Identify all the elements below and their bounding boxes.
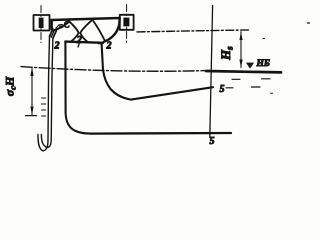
draft tube bottom wall	[90, 132, 231, 135]
svg-text:Нs: Нs	[218, 46, 235, 61]
svg-text:σсН: σсН	[2, 76, 17, 96]
point C marker circle	[60, 24, 63, 27]
pump casing inlet contour	[53, 22, 70, 31]
vacuum gauge tube bend from casing	[50, 29, 53, 37]
sigma-c H dimension line	[31, 67, 33, 115]
suction pipe right wall / draft tube top	[102, 43, 213, 99]
runner passage hourglass right	[80, 20, 92, 42]
casing bottom edge	[65, 42, 103, 43]
svg-text:2: 2	[106, 41, 112, 52]
pump casing left edge	[51, 20, 53, 29]
pump casing top edge	[52, 18, 120, 20]
gauge graduation ticks	[42, 97, 46, 99]
casing hatch marks near C	[56, 25, 62, 30]
casing inner right curve	[93, 21, 104, 40]
svg-text:5: 5	[220, 84, 225, 95]
Hs dimension line	[240, 32, 242, 68]
axis dash-dot line at runner level	[137, 30, 249, 32]
vacuum gauge tube down leg	[48, 37, 50, 141]
label Hs	[218, 46, 235, 61]
svg-text:C: C	[64, 20, 71, 30]
left bearing box	[34, 15, 50, 31]
sigma-c H bottom tick	[26, 115, 37, 117]
water shading row 1	[232, 78, 270, 81]
right bearing centerline	[126, 5, 128, 43]
tailwater reference dash-dot line	[21, 67, 205, 72]
runner passage hourglass left	[69, 21, 79, 42]
water shading dot	[271, 92, 273, 94]
scan speck mid right	[263, 38, 265, 40]
svg-text:НБ: НБ	[256, 59, 270, 69]
right bearing box	[120, 15, 134, 30]
suction pipe right wall hook	[98, 42, 101, 44]
svg-text:2: 2	[76, 35, 82, 46]
vacuum gauge U-turn	[38, 135, 48, 151]
casing outer right bell	[104, 18, 120, 42]
tailwater surface heavy line	[206, 71, 281, 72]
scan speck top right	[308, 22, 310, 24]
svg-text:5: 5	[210, 136, 215, 147]
water level mark	[246, 63, 254, 69]
water shading row 2	[226, 86, 260, 89]
left bearing centerline	[40, 6, 42, 43]
svg-text:2: 2	[54, 41, 60, 52]
section line 5-5	[210, 6, 213, 138]
label sigma-c H	[2, 76, 17, 96]
runner outlet tick	[78, 44, 79, 47]
suction pipe left wall	[65, 43, 90, 134]
